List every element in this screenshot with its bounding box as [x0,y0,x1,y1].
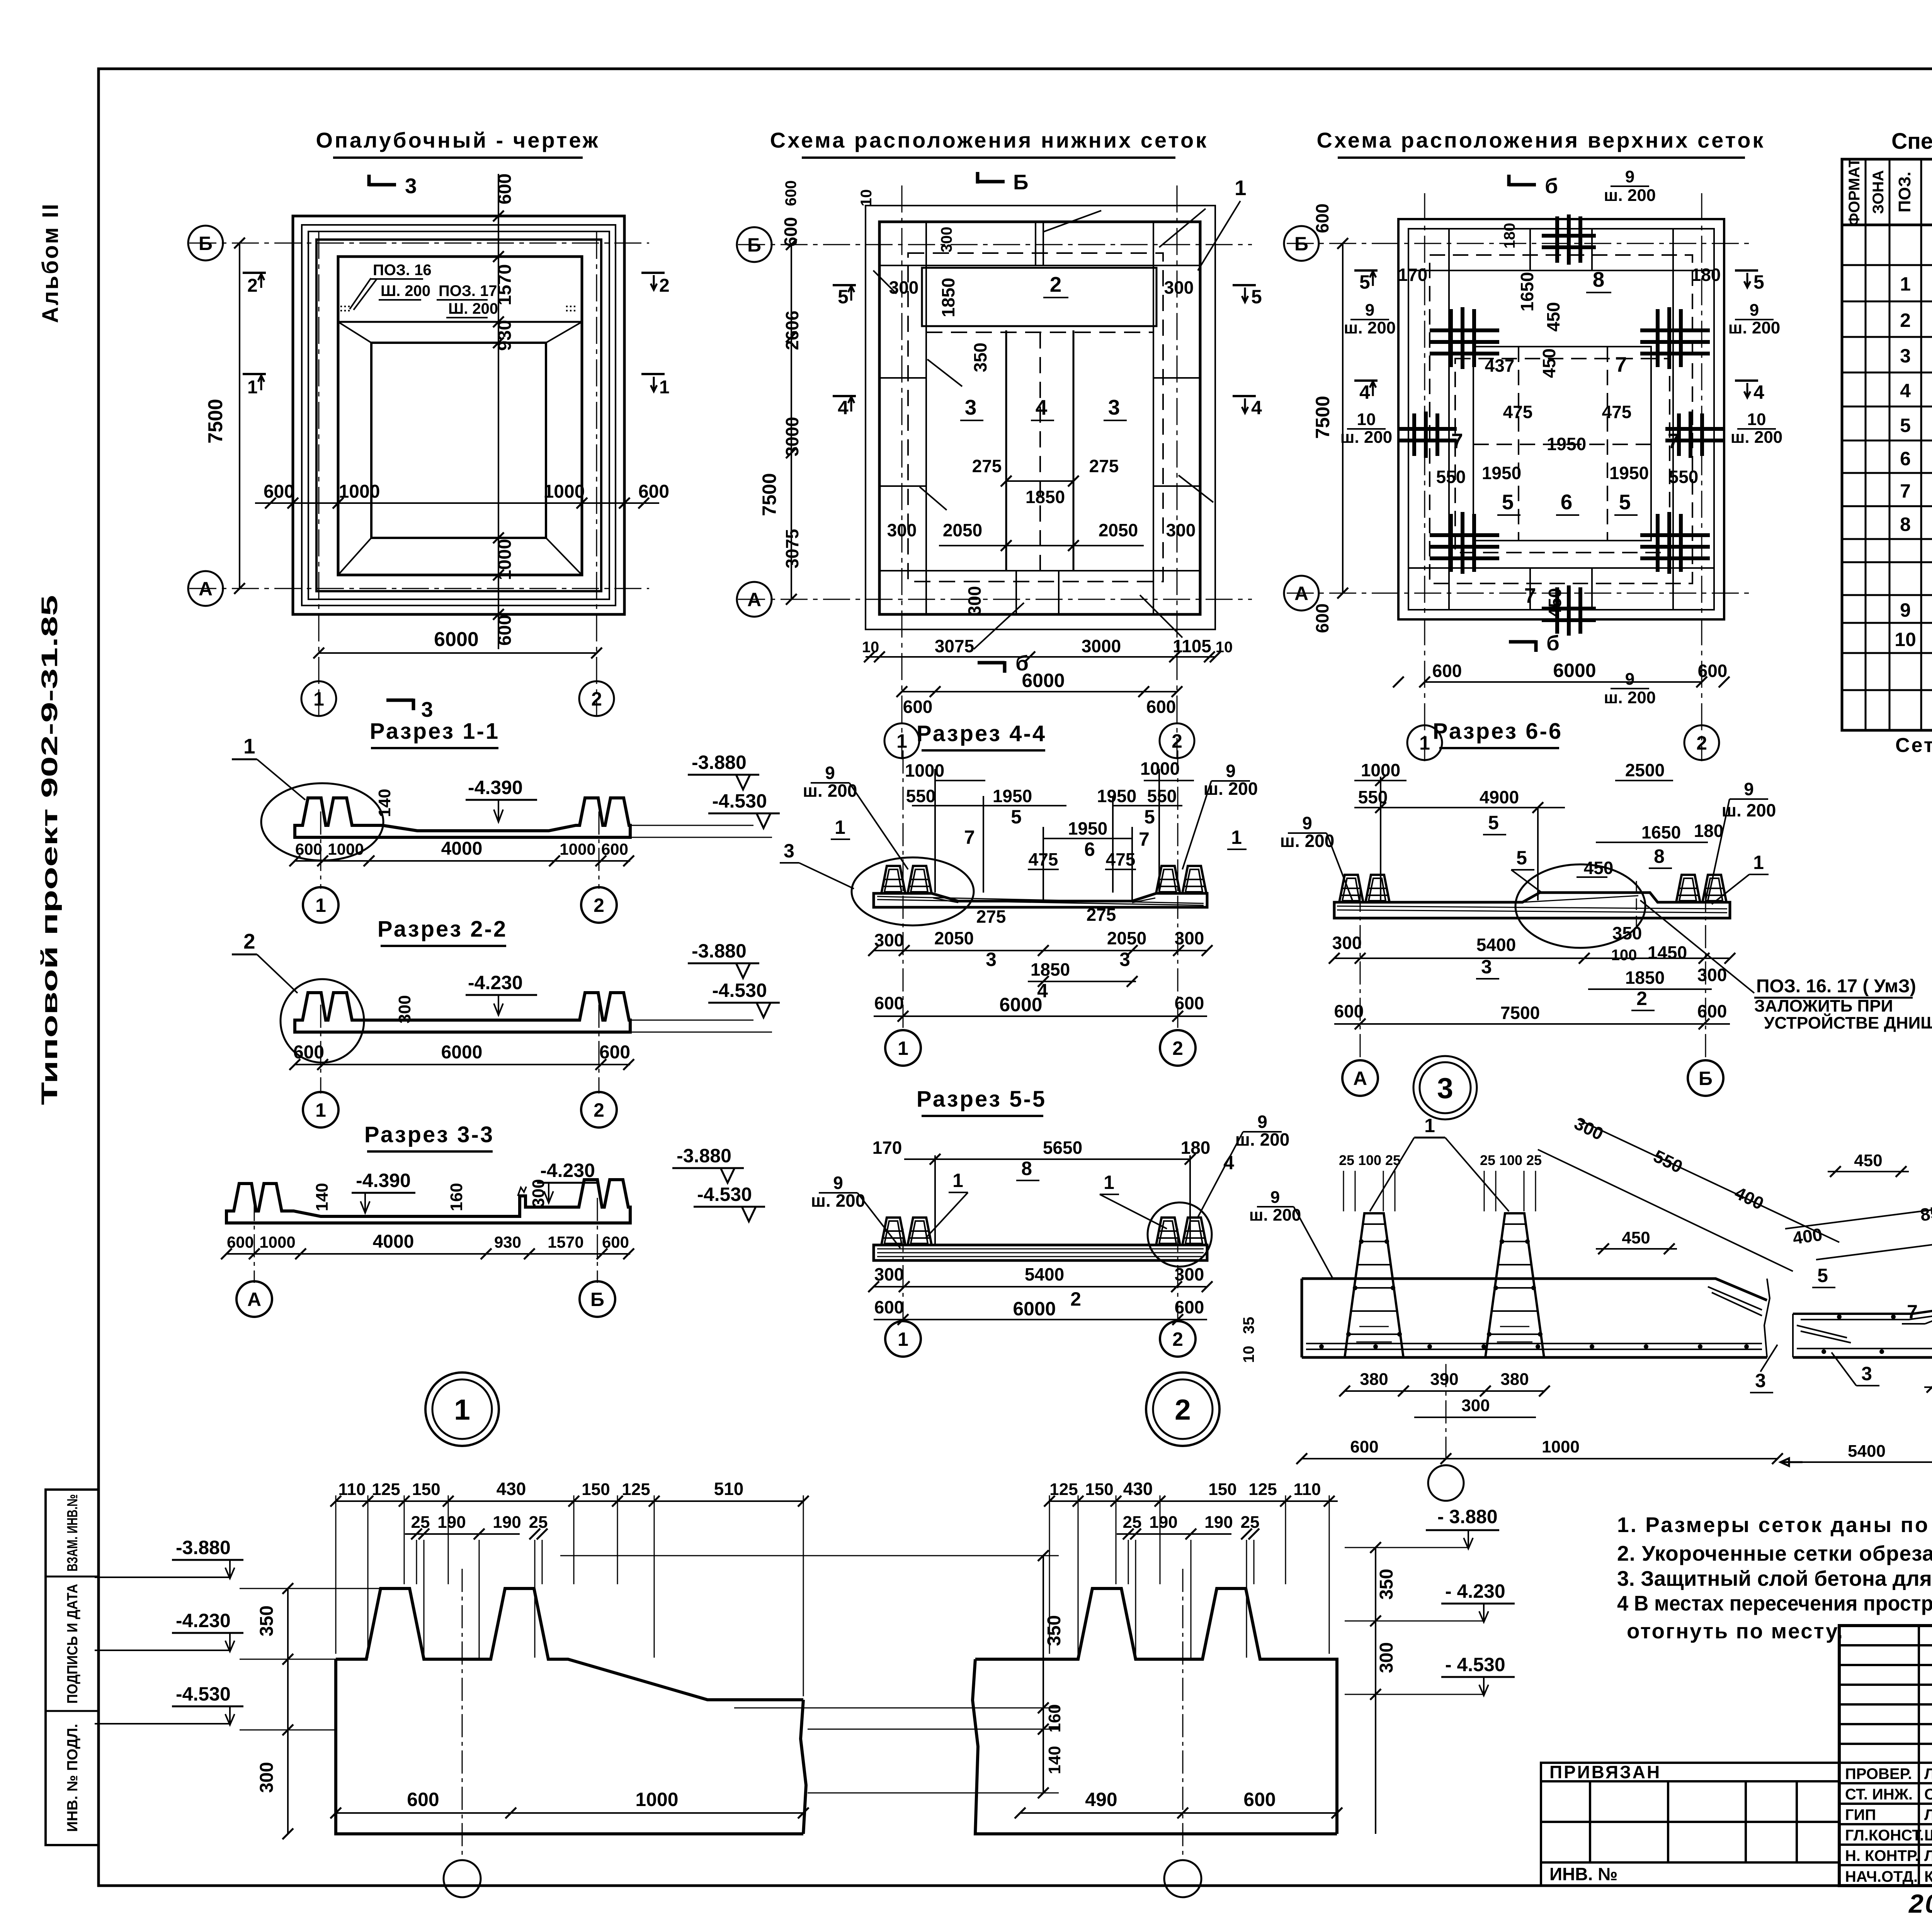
svg-text:600: 600 [602,1233,629,1251]
svg-text:б: б [1546,631,1560,655]
svg-text:300: 300 [874,1264,904,1284]
svg-text:1000: 1000 [1542,1437,1580,1456]
svg-text:930: 930 [494,1233,521,1251]
svg-text:2: 2 [594,1099,604,1121]
svg-text:Разрез 6-6: Разрез 6-6 [1433,719,1563,744]
svg-text:7500: 7500 [759,473,780,516]
svg-text:5: 5 [1011,806,1022,828]
svg-text:6000: 6000 [1553,660,1596,681]
svg-text:600: 600 [1697,1001,1727,1021]
svg-text:275: 275 [1087,905,1116,925]
svg-text:1950: 1950 [1482,463,1521,483]
svg-text:300: 300 [1166,520,1196,540]
svg-text:160: 160 [1045,1704,1064,1732]
svg-text:475: 475 [1106,849,1136,869]
svg-text:9: 9 [1270,1188,1280,1207]
svg-text:ш. 200: ш. 200 [1344,318,1396,337]
svg-text:Альбом II: Альбом II [38,202,63,323]
svg-text:150: 150 [412,1480,440,1499]
svg-text:4: 4 [1036,395,1048,419]
svg-text:ПОЗ. 16: ПОЗ. 16 [373,262,432,279]
svg-text:2: 2 [1172,730,1182,752]
svg-text:1850: 1850 [1031,959,1070,980]
svg-text:400: 400 [1791,1224,1823,1248]
svg-text:6000: 6000 [999,994,1042,1015]
svg-text:б: б [1545,174,1558,198]
svg-text:10: 10 [1747,410,1766,429]
svg-text:6: 6 [1084,838,1095,860]
svg-text:600: 600 [1698,661,1728,681]
svg-text:1: 1 [315,895,326,916]
svg-text:8: 8 [1593,267,1605,291]
svg-text:510: 510 [714,1479,744,1499]
svg-text:Схема расположения верхних: Схема расположения верхних сеток [1317,128,1765,152]
svg-text:100: 100 [1499,1152,1522,1168]
svg-text:600: 600 [781,217,801,247]
svg-text:1000: 1000 [905,760,944,781]
svg-text:Б: Б [199,233,213,254]
svg-text:600: 600 [495,615,515,646]
svg-text:190: 190 [1149,1513,1177,1532]
svg-text:7: 7 [1900,480,1911,502]
svg-text:-4.230: -4.230 [540,1160,595,1181]
svg-text:25: 25 [1123,1513,1142,1532]
svg-text:1850: 1850 [938,278,958,317]
svg-text:7500: 7500 [204,399,227,444]
svg-text:1000: 1000 [1361,760,1400,780]
svg-text:ш. 200: ш. 200 [1731,428,1783,447]
svg-text:1000: 1000 [259,1233,295,1251]
svg-text:- 4.230: - 4.230 [1445,1580,1505,1602]
svg-text:2050: 2050 [1107,928,1146,948]
svg-text:4: 4 [1359,381,1370,403]
svg-text:КРАСАВИН.: КРАСАВИН. [1924,1868,1932,1885]
svg-text:7: 7 [1451,429,1463,453]
svg-text:1950: 1950 [1097,786,1136,806]
svg-text:1950: 1950 [1609,463,1649,483]
svg-text:1000: 1000 [635,1789,678,1810]
svg-text:2: 2 [1172,1328,1183,1350]
svg-text:6: 6 [1900,448,1911,469]
svg-text:3: 3 [1755,1370,1766,1391]
svg-text:300: 300 [1175,928,1204,948]
svg-text:160: 160 [447,1183,466,1211]
svg-text:ФОРМАТ: ФОРМАТ [1846,158,1863,226]
svg-text:ш. 200: ш. 200 [1604,688,1656,707]
svg-text:Разрез 2-2: Разрез 2-2 [378,917,507,942]
svg-text:450: 450 [1545,588,1565,618]
svg-text:10: 10 [858,189,875,207]
svg-text:2: 2 [591,688,602,710]
svg-text:275: 275 [972,456,1002,476]
svg-text:600: 600 [1146,697,1176,717]
svg-text:3075: 3075 [782,529,802,568]
svg-text:25: 25 [1241,1513,1260,1532]
svg-text:190: 190 [493,1513,521,1532]
svg-text:ЗОНА: ЗОНА [1870,170,1887,214]
svg-text:550: 550 [1650,1146,1686,1177]
svg-text:3: 3 [986,949,997,970]
svg-text:9: 9 [1257,1112,1267,1132]
svg-text:275: 275 [1089,456,1119,476]
svg-text:3: 3 [965,395,977,419]
svg-text:3: 3 [1108,395,1120,419]
svg-text:600: 600 [903,697,933,717]
svg-text:-4.230: -4.230 [468,972,523,993]
svg-text:25: 25 [1339,1152,1354,1168]
svg-text:600: 600 [264,481,294,502]
svg-text:25: 25 [529,1513,548,1532]
svg-text:ЛОУЦКЕР: ЛОУЦКЕР [1924,1806,1932,1823]
svg-text:600: 600 [874,993,904,1013]
svg-text:300: 300 [1164,277,1194,298]
svg-text:550: 550 [1358,787,1388,807]
svg-text:490: 490 [1085,1789,1117,1810]
svg-text:1000: 1000 [1140,759,1180,779]
svg-text:5: 5 [1619,490,1631,514]
svg-text:350: 350 [1044,1615,1065,1646]
svg-text:1. Размеры сеток даны п: 1. Размеры сеток даны по их габариту. [1617,1513,1932,1537]
svg-text:1: 1 [1419,732,1430,754]
svg-text:ПОЗ. 16. 17 ( УмЗ): ПОЗ. 16. 17 ( УмЗ) [1756,976,1916,997]
svg-text:ШАПИРО: ШАПИРО [1924,1827,1932,1844]
svg-text:4: 4 [1753,381,1764,403]
svg-text:УСТРОЙСТВЕ ДНИЩА: УСТРОЙСТВЕ ДНИЩА [1764,1013,1932,1032]
svg-text:9: 9 [833,1173,843,1193]
svg-text:180: 180 [1691,265,1721,285]
svg-text:10: 10 [1357,410,1376,429]
svg-text:170: 170 [1398,265,1428,285]
svg-text:125: 125 [1049,1480,1078,1499]
svg-text:1: 1 [835,816,845,838]
svg-text:5400: 5400 [1848,1442,1886,1461]
svg-text:4000: 4000 [441,838,483,859]
svg-text:3: 3 [421,697,433,721]
svg-text:Спецификация к схеме распол: Спецификация к схеме расположения армату… [1891,129,1932,154]
svg-text:600: 600 [1312,604,1332,633]
svg-text:600: 600 [1350,1437,1378,1456]
svg-text:4000: 4000 [373,1231,414,1252]
svg-text:300: 300 [1376,1642,1397,1673]
svg-text:9: 9 [1625,670,1634,689]
svg-text:Б: Б [1699,1068,1713,1089]
svg-text:ИНВ. №: ИНВ. № [1549,1864,1617,1884]
svg-text:- 4.530: - 4.530 [1445,1654,1505,1675]
svg-text:ПРОВЕР.: ПРОВЕР. [1845,1765,1912,1782]
svg-text:350: 350 [257,1605,277,1636]
svg-text:6000: 6000 [1022,670,1065,691]
svg-text:450: 450 [1543,302,1563,332]
svg-text:125: 125 [1248,1480,1277,1499]
svg-text:1: 1 [315,1099,326,1121]
svg-text:300: 300 [938,227,955,253]
svg-text:10: 10 [1240,1346,1257,1363]
svg-text:100: 100 [1611,947,1637,964]
svg-text:-3.880: -3.880 [176,1537,231,1558]
svg-text:-4.390: -4.390 [356,1170,411,1191]
svg-text:2: 2 [594,895,604,916]
svg-text:5400: 5400 [1476,935,1516,955]
svg-text:1: 1 [313,688,324,710]
svg-text:1: 1 [952,1170,963,1191]
svg-text:5: 5 [1488,812,1499,833]
svg-text:1000: 1000 [328,840,364,858]
svg-text:600: 600 [295,840,322,858]
svg-text:6000: 6000 [1013,1298,1056,1320]
svg-text:5: 5 [1502,490,1514,514]
svg-text:475: 475 [1029,849,1058,869]
svg-text:1650: 1650 [1641,822,1681,842]
svg-text:1000: 1000 [495,539,515,580]
svg-text:150: 150 [1085,1480,1113,1499]
svg-text:Б: Б [590,1289,604,1310]
svg-text:4900: 4900 [1480,787,1519,807]
svg-text:Разрез 1-1: Разрез 1-1 [370,719,500,744]
svg-text:1850: 1850 [1625,968,1665,988]
svg-text:300: 300 [1461,1396,1490,1415]
svg-text:600: 600 [1243,1789,1276,1810]
svg-text:190: 190 [437,1513,466,1532]
svg-text:Схема расположения нижних с: Схема расположения нижних сеток [770,128,1208,152]
svg-text:Ш. 200: Ш. 200 [448,300,498,317]
svg-text:8: 8 [1654,845,1665,867]
svg-text:2: 2 [1636,988,1647,1009]
svg-text:380: 380 [1360,1370,1388,1389]
svg-text:ш. 200: ш. 200 [1722,800,1776,820]
svg-text:3: 3 [1437,1072,1453,1104]
svg-text:600: 600 [1334,1001,1364,1021]
svg-text:600: 600 [495,173,515,204]
svg-text:600: 600 [1432,661,1462,681]
svg-text:1: 1 [247,377,258,398]
svg-text:5650: 5650 [1043,1138,1082,1158]
svg-text:25: 25 [1480,1152,1495,1168]
svg-text:1650: 1650 [1517,272,1537,311]
svg-text:ПРИВЯЗАН: ПРИВЯЗАН [1549,1762,1661,1782]
svg-text:25: 25 [1526,1152,1542,1168]
svg-text:300: 300 [395,995,414,1023]
svg-text:-4.390: -4.390 [468,777,523,798]
svg-text:1: 1 [898,1328,908,1350]
svg-text:140: 140 [313,1183,332,1211]
svg-text:1000: 1000 [560,840,595,858]
svg-text:1950: 1950 [1547,434,1586,454]
svg-text:А: А [1353,1068,1367,1089]
svg-text:180: 180 [1694,821,1724,841]
svg-text:600: 600 [1312,204,1332,233]
svg-text:600: 600 [293,1042,324,1063]
svg-text:600: 600 [601,840,628,858]
svg-text:2: 2 [1070,1288,1081,1310]
svg-text:450: 450 [1584,858,1614,878]
svg-text:-4.530: -4.530 [712,790,767,812]
svg-text:600: 600 [599,1042,630,1063]
svg-text:Опалубочный - чертеж: Опалубочный - чертеж [316,128,600,152]
svg-text:25: 25 [411,1513,430,1532]
svg-text:7500: 7500 [1312,396,1333,439]
svg-text:8: 8 [1021,1158,1032,1179]
svg-text:600: 600 [1175,993,1204,1013]
svg-text:3000: 3000 [782,417,802,456]
svg-text:437: 437 [1485,355,1515,376]
svg-text:1: 1 [898,1037,908,1059]
svg-text:10: 10 [1216,639,1233,656]
svg-text:300: 300 [964,586,985,616]
svg-text:3. Защитный слой бетона д: 3. Защитный слой бетона для нижних сеток… [1617,1566,1932,1590]
svg-text:2. Укороченные сетки обрез: 2. Укороченные сетки обрезать по месту. [1617,1541,1932,1565]
svg-text:400: 400 [1731,1182,1767,1213]
svg-text:1000: 1000 [544,481,585,502]
svg-text:180: 180 [1181,1138,1211,1158]
svg-text:110: 110 [338,1480,366,1499]
svg-text:А: А [199,578,213,600]
svg-text:1: 1 [1424,1115,1435,1136]
svg-text:1850: 1850 [1026,487,1065,507]
svg-text:9: 9 [1750,301,1759,320]
svg-text:Б: Б [1013,170,1029,194]
svg-text:380: 380 [1500,1370,1529,1389]
svg-text:1: 1 [1235,176,1247,200]
svg-text::::: ::: [339,301,351,314]
svg-text:4: 4 [1900,380,1911,401]
svg-text:1: 1 [454,1393,470,1426]
svg-text:ГЛ.КОНСТ.: ГЛ.КОНСТ. [1845,1827,1924,1844]
svg-text:35: 35 [1240,1317,1257,1334]
svg-text:2050: 2050 [1099,520,1138,540]
svg-text:550: 550 [1669,467,1699,487]
svg-text:ЛОУЦКЕР.: ЛОУЦКЕР. [1924,1765,1932,1782]
svg-text:300: 300 [889,277,919,298]
svg-text:5400: 5400 [1025,1264,1064,1284]
svg-text:ш. 200: ш. 200 [1340,428,1393,447]
svg-text:25: 25 [1385,1152,1401,1168]
svg-text:600: 600 [638,481,669,502]
svg-text:350: 350 [1612,923,1642,943]
svg-text:390: 390 [1430,1370,1458,1389]
svg-text:1450: 1450 [1648,942,1687,963]
svg-text:2606: 2606 [782,311,802,350]
svg-text:НАЧ.ОТД.: НАЧ.ОТД. [1845,1868,1918,1885]
svg-text:350: 350 [1376,1569,1397,1600]
svg-text:8: 8 [1900,514,1911,535]
svg-text:600: 600 [1175,1297,1204,1317]
svg-text:-3.880: -3.880 [692,752,747,773]
svg-text:2500: 2500 [1625,760,1665,780]
svg-text:1: 1 [896,730,907,752]
svg-text:5: 5 [1144,806,1155,828]
svg-text:3: 3 [1481,956,1492,978]
svg-text:1: 1 [1753,852,1764,873]
svg-text:-4.530: -4.530 [712,980,767,1001]
svg-text:7: 7 [1139,828,1150,850]
svg-text:450: 450 [1854,1151,1882,1170]
svg-text:2: 2 [1050,272,1062,296]
svg-text:190: 190 [1204,1513,1233,1532]
svg-text:1000: 1000 [339,481,380,502]
svg-text:ПОЗ. 17: ПОЗ. 17 [439,282,497,299]
svg-text:550: 550 [1436,467,1466,487]
svg-text:5: 5 [838,286,849,308]
svg-text:1: 1 [659,377,670,398]
svg-text:5: 5 [1516,847,1527,869]
svg-text:180: 180 [1501,223,1518,249]
svg-text:150: 150 [1208,1480,1236,1499]
svg-text:Б: Б [747,234,761,256]
svg-text:125: 125 [372,1480,400,1499]
svg-text:550: 550 [906,786,936,806]
svg-text:3: 3 [784,840,794,862]
svg-text:1950: 1950 [1068,818,1107,838]
svg-text:600: 600 [782,180,799,206]
svg-text:140: 140 [1045,1746,1064,1774]
svg-text:850: 850 [1919,1201,1932,1225]
svg-text:9: 9 [1900,599,1911,621]
svg-text:Разрез 3-3: Разрез 3-3 [364,1122,494,1147]
svg-text:2: 2 [1900,310,1911,331]
svg-text:5: 5 [1817,1265,1828,1286]
svg-text:-4.530: -4.530 [697,1184,752,1205]
svg-text:6: 6 [1561,490,1573,514]
svg-text:475: 475 [1602,402,1632,422]
svg-text:7: 7 [964,827,975,848]
svg-text:1: 1 [1104,1172,1114,1193]
svg-text:600: 600 [874,1297,904,1317]
svg-text:3000: 3000 [1082,636,1121,656]
svg-text:150: 150 [582,1480,610,1499]
svg-text:125: 125 [622,1480,650,1499]
svg-text:140: 140 [375,789,394,817]
svg-text:1: 1 [1231,827,1242,848]
svg-text:2: 2 [659,276,670,296]
svg-text:4: 4 [838,397,849,418]
svg-text:9: 9 [1365,301,1374,320]
svg-text:Типовой проект 902-9-31.85: Типовой проект 902-9-31.85 [37,595,62,1105]
svg-text:6000: 6000 [441,1042,483,1063]
svg-text:Разрез 4-4: Разрез 4-4 [917,721,1046,746]
svg-text:ГИП: ГИП [1845,1806,1876,1823]
svg-text:5: 5 [1753,271,1764,293]
svg-text:2: 2 [1175,1393,1191,1426]
svg-text:170: 170 [872,1138,902,1158]
svg-text:Сетка поз. 2 выполнена п: Сетка поз. 2 выполнена по ГОСТ 23279-78 [1895,734,1932,757]
svg-text:4: 4 [1251,397,1262,418]
svg-text:ЛОУЦКЕР: ЛОУЦКЕР [1924,1847,1932,1864]
svg-text:1570: 1570 [548,1233,583,1251]
svg-text:9: 9 [1302,813,1312,833]
svg-text:7: 7 [1615,352,1627,376]
svg-text:300: 300 [1571,1113,1607,1144]
svg-text:-3.880: -3.880 [677,1145,731,1167]
svg-text:600: 600 [227,1233,254,1251]
svg-text:Б: Б [1294,233,1308,255]
svg-text:3: 3 [1900,345,1911,367]
svg-text:2: 2 [243,929,255,953]
svg-text:4 В местах пересечения прос: 4 В местах пересечения пространственных … [1617,1591,1932,1615]
svg-text:300: 300 [1175,1264,1204,1284]
svg-text:300: 300 [257,1762,277,1793]
svg-text:3: 3 [405,174,417,198]
svg-text:ПОДПИСЬ И ДАТА: ПОДПИСЬ И ДАТА [65,1584,81,1704]
svg-text:1950: 1950 [993,786,1032,806]
svg-text::::: ::: [565,301,577,314]
svg-text:600: 600 [407,1789,439,1810]
svg-text:ПОЗ.: ПОЗ. [1895,172,1914,213]
svg-text:550: 550 [1147,786,1177,806]
svg-text:5: 5 [1900,415,1911,436]
svg-text:20520-02: 20520-02 [1908,1889,1932,1918]
svg-text:ИНВ. № ПОДЛ.: ИНВ. № ПОДЛ. [65,1724,81,1832]
svg-text:-4.230: -4.230 [176,1610,231,1631]
